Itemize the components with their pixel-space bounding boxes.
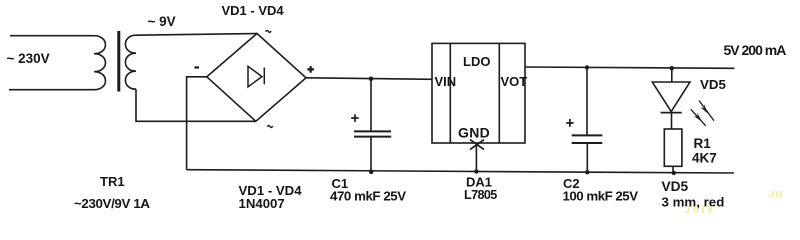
svg-text:VOT: VOT — [501, 74, 528, 89]
wire VOT output — [525, 67, 734, 68]
transformer TR1 core — [117, 31, 120, 92]
wire mains top — [10, 35, 94, 37]
wire bridge minus output — [187, 77, 207, 170]
node C2/rail — [585, 170, 589, 174]
svg-text:.ru: .ru — [768, 188, 782, 200]
svg-text:VD1 - VD4: VD1 - VD4 — [222, 3, 285, 18]
svg-text:J 0 I ¥: J 0 I ¥ — [684, 204, 713, 216]
svg-text:TR1: TR1 — [100, 174, 125, 189]
regulator DA1 box — [432, 43, 525, 143]
diode symbol inside bridge — [248, 66, 264, 87]
LED arrowheads — [694, 104, 708, 121]
capacitor C1 plates — [354, 131, 391, 136]
capacitor C1 plus sign — [351, 114, 358, 122]
junction dots — [369, 65, 676, 175]
transformer TR1 secondary winding — [125, 35, 136, 89]
resistor R1 body — [664, 129, 682, 166]
regulator internal dividers — [450, 43, 499, 143]
bridge terminal tilde bottom — [267, 125, 272, 127]
svg-text:~ 9V: ~ 9V — [148, 14, 176, 29]
capacitor C2 plates — [572, 135, 603, 143]
svg-text:1N4007: 1N4007 — [239, 196, 285, 211]
node VOT/C2 — [585, 65, 589, 69]
watermark — [684, 188, 782, 216]
svg-text:100 mkF 25V: 100 mkF 25V — [563, 188, 639, 203]
wire mains bottom — [9, 89, 94, 91]
wire secondary bottom to bridge — [136, 89, 256, 121]
LED VD5 anode lead — [671, 68, 673, 82]
bridge terminal tilde top — [266, 30, 271, 32]
svg-text:~230V/9V 1A: ~230V/9V 1A — [74, 196, 150, 211]
bridge terminal minus — [195, 66, 200, 68]
svg-text:L7805: L7805 — [464, 188, 497, 202]
node bridge+/C1 — [369, 77, 374, 82]
svg-text:GND: GND — [458, 124, 490, 140]
GND X mark — [470, 140, 484, 150]
svg-text:VD5: VD5 — [700, 77, 726, 92]
LED VD5 cathode bar — [661, 112, 682, 114]
ground rail — [187, 170, 734, 173]
bridge rectifier VD1-VD4 — [207, 34, 306, 122]
node C1/rail — [369, 170, 373, 174]
svg-text:LDO: LDO — [463, 54, 490, 69]
svg-text:5V 200 mA: 5V 200 mA — [724, 42, 787, 58]
transformer TR1 primary winding — [94, 36, 105, 90]
bridge terminal plus — [307, 66, 314, 73]
wire LED to resistor — [671, 113, 673, 129]
svg-text:R1: R1 — [694, 136, 712, 151]
LED light arrow 2 — [691, 109, 706, 126]
GND pin wire — [475, 143, 477, 172]
svg-text:VIN: VIN — [435, 74, 457, 89]
resistor R1 bottom lead — [672, 166, 674, 173]
svg-text:4K7: 4K7 — [692, 151, 717, 166]
capacitor C2 plus sign — [566, 119, 573, 127]
LED VD5 triangle — [652, 82, 690, 112]
wire secondary top to bridge — [136, 34, 257, 36]
svg-text:~ 230V: ~ 230V — [7, 51, 50, 66]
wire bridge plus to VIN — [306, 78, 432, 80]
node R1/rail — [672, 171, 676, 175]
LED light arrow 1 — [699, 101, 714, 121]
svg-text:VD5: VD5 — [662, 179, 689, 194]
node GND/rail — [474, 169, 478, 173]
svg-text:470 mkF 25V: 470 mkF 25V — [330, 188, 406, 203]
capacitor C1 leads — [370, 79, 372, 172]
node VOT/LED — [670, 66, 674, 70]
capacitor C2 leads — [586, 67, 588, 172]
